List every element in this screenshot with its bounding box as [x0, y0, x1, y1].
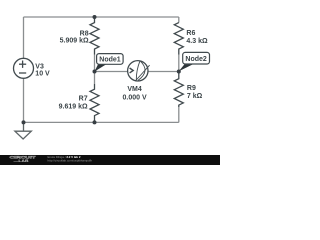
svg-text:R6: R6	[186, 30, 195, 37]
wire bottom horizontal net	[24, 121, 179, 123]
wire Node1 to voltmeter left	[95, 71, 130, 73]
svg-text:—LAB: —LAB	[14, 159, 29, 163]
resistor R6	[174, 23, 183, 55]
svg-text:0.000 V: 0.000 V	[123, 94, 147, 101]
footer CircuitLab logo	[10, 156, 37, 160]
voltmeter VM4	[128, 61, 150, 81]
svg-text:4.3 kΩ: 4.3 kΩ	[186, 38, 208, 45]
junction dot bottom (R7/bottom net)	[93, 120, 97, 124]
voltage source V3	[14, 58, 34, 78]
wire R6 bottom lead	[178, 55, 180, 72]
ground	[15, 122, 31, 139]
wire R9 bottom lead	[178, 107, 180, 122]
wire voltmeter right to Node2	[147, 71, 179, 73]
node Node2 callout	[179, 52, 210, 71]
node Node1 callout	[94, 54, 123, 72]
junction dot Node2	[177, 70, 181, 74]
junction dot Node1	[93, 70, 97, 74]
resistor R9	[174, 72, 183, 108]
svg-text:5.909 kΩ: 5.909 kΩ	[60, 37, 89, 44]
svg-text:7 kΩ: 7 kΩ	[187, 93, 203, 100]
wire R8 bottom lead	[94, 55, 96, 72]
svg-text:9.619 kΩ: 9.619 kΩ	[59, 103, 88, 110]
svg-text:Node1: Node1	[99, 57, 121, 64]
resistor R7	[90, 84, 99, 122]
svg-text:R9: R9	[187, 85, 196, 92]
svg-text:http://circuitlab.com/csqkbham: http://circuitlab.com/csqkbhampdfh	[48, 158, 93, 162]
wire R7 top lead	[94, 72, 96, 85]
svg-text:R8: R8	[80, 30, 89, 37]
svg-text:10 V: 10 V	[35, 71, 50, 78]
svg-text:Node2: Node2	[185, 56, 207, 63]
footer watermark bar	[0, 155, 220, 165]
svg-text:VM4: VM4	[127, 86, 142, 93]
wire V3 bottom to ground node	[23, 78, 25, 122]
junction dot top (R8/top net)	[93, 15, 97, 19]
resistor R8	[90, 17, 99, 55]
svg-text:R7: R7	[79, 96, 88, 103]
wire R6 top lead	[178, 17, 180, 23]
wire left vertical to V3 top	[23, 17, 25, 58]
junction dot ground node	[22, 120, 26, 124]
wire top horizontal net	[24, 16, 179, 18]
svg-text:V3: V3	[35, 64, 44, 71]
